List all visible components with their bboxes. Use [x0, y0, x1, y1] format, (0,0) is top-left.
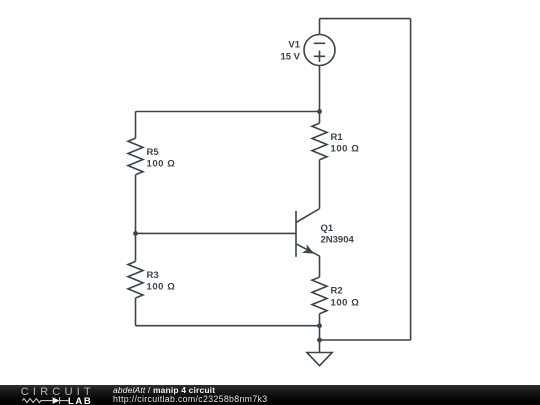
resistor R2 — [312, 277, 327, 314]
wire: R2 bottom lead to ground — [319, 314, 321, 353]
ground — [307, 353, 332, 366]
svg-text:R2: R2 — [331, 286, 343, 297]
svg-text:2N3904: 2N3904 — [321, 235, 355, 246]
svg-text:100 Ω: 100 Ω — [331, 297, 360, 308]
wire: R5 bottom to R3 top through base node — [135, 175, 137, 262]
wire: R1 bottom lead to Q1 collector — [319, 160, 321, 209]
wire: bottom left horizontal to ground node — [136, 325, 320, 327]
wire: V1 bottom lead down to node at R1 top — [319, 66, 321, 112]
svg-text:100 Ω: 100 Ω — [147, 282, 176, 293]
svg-text:Q1: Q1 — [321, 223, 334, 234]
junction node at Q1 base / R5-R3 — [133, 231, 138, 236]
wire: horizontal from R5 top to R1 top node — [136, 111, 320, 113]
V1 plus sign — [314, 51, 325, 62]
resistor R1 — [312, 123, 327, 160]
voltage source V1 — [304, 35, 335, 66]
wire: bottom right horizontal from right rail to ground node — [320, 339, 411, 341]
wire: R5 top lead — [135, 112, 137, 139]
resistor R5 — [128, 138, 143, 175]
svg-text:V1: V1 — [288, 40, 300, 51]
wire: R1 top lead — [319, 112, 321, 124]
footer bar — [0, 385, 540, 405]
CircuitLab logo — [0, 384, 110, 405]
junction node at ground / bottom-right wire — [317, 338, 322, 343]
url — [113, 394, 267, 404]
wire: R3 bottom lead — [135, 298, 137, 326]
title: user / circuit name — [113, 385, 215, 395]
junction node at R1 top / V1 bottom — [317, 109, 322, 114]
junction node at R2 bottom / bottom-left wire — [317, 323, 322, 328]
svg-text:LAB: LAB — [68, 396, 91, 405]
svg-text:100 Ω: 100 Ω — [147, 158, 176, 169]
svg-text:R5: R5 — [147, 147, 160, 158]
wire: top horizontal from V1 branch to right rail — [320, 18, 411, 20]
wire: right vertical rail — [410, 19, 412, 340]
svg-text:100 Ω: 100 Ω — [331, 143, 360, 154]
wire: Q1 emitter lead to R2 top — [319, 256, 321, 277]
wire: V1 positive lead up to top wire — [319, 19, 321, 35]
transistor Q1 — [296, 209, 320, 257]
V1 minus sign — [314, 42, 325, 44]
resistor R3 — [128, 261, 143, 298]
svg-text:R3: R3 — [147, 270, 159, 281]
svg-text:R1: R1 — [331, 132, 344, 143]
wire: base wire from left node to Q1 base — [136, 232, 297, 234]
svg-text:15 V: 15 V — [280, 52, 300, 63]
